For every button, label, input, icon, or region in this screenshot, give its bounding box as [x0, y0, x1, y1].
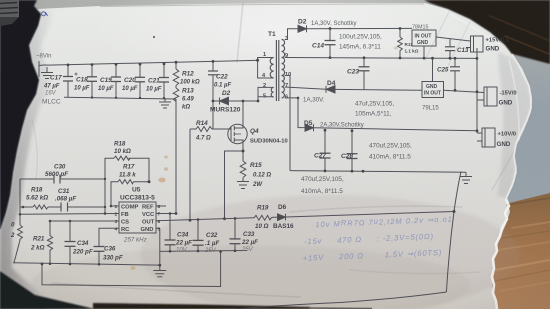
transformer T1	[270, 40, 284, 102]
secondary windings	[282, 40, 285, 58]
capacitor C22	[208, 61, 218, 101]
diode D2	[298, 25, 412, 32]
capacitor C36	[94, 247, 105, 265]
wire FB pin2	[20, 213, 119, 216]
wire GND pin5	[156, 227, 160, 229]
wire VCC pin7	[156, 213, 176, 215]
blue pen mark top-left	[42, 12, 48, 16]
capacitor C30	[51, 175, 64, 184]
diode D4	[326, 86, 422, 93]
junction dots control	[19, 178, 456, 267]
resistor R15	[240, 161, 246, 182]
U5 pin numbers 1-4	[115, 204, 161, 233]
ground (secondary)	[460, 172, 472, 183]
wire R13 to VCC line	[175, 99, 177, 214]
resistor R18 (10k)	[114, 156, 130, 160]
wire OUT pin6 to R19	[156, 218, 254, 221]
diode D2 MURS120	[213, 97, 258, 105]
transistor Q4	[228, 124, 247, 143]
resistor R18 (5.62k)	[33, 205, 48, 209]
wire Q4 source down	[242, 144, 244, 162]
capacitor C14	[325, 29, 336, 58]
dark object top-left (over paper edge)	[0, 0, 41, 230]
node ~8Vin input	[39, 61, 48, 77]
wire REF pin8 stub	[156, 205, 166, 207]
ground (U5)	[153, 271, 166, 277]
resistor R20 (0.2) left edge	[14, 225, 22, 263]
resistor R13	[173, 88, 179, 102]
capacitor C28	[347, 131, 358, 171]
capacitor C31	[61, 203, 68, 212]
dark wedge bottom-left	[0, 271, 95, 309]
capacitor C17	[63, 65, 78, 97]
wire R18-10k loop	[105, 158, 149, 213]
background wood table bottom right	[470, 193, 550, 309]
wire bottom rail (left)	[13, 263, 160, 265]
connector J3 +10V	[477, 128, 495, 147]
wire R17 loop	[111, 182, 149, 206]
capacitor C23	[359, 58, 370, 90]
wire pin2/pin5 to drain node	[258, 87, 274, 101]
capacitor C34 (22uF 10V)	[165, 214, 176, 252]
wire source sense to OUT line	[225, 151, 244, 219]
capacitor C13	[445, 39, 455, 59]
dark wedge top-right	[424, 0, 550, 64]
wire ground drop vertical	[159, 228, 161, 270]
ground (input)	[41, 67, 53, 79]
wire ground rail (right, upper)	[160, 250, 247, 253]
label R12	[180, 71, 231, 111]
capacitor C19	[111, 64, 121, 97]
wire secondary top to D2	[285, 29, 298, 40]
wire C22 down to gate node	[213, 101, 229, 129]
text labels control section	[10, 141, 294, 262]
wire pin6 down to D5	[285, 98, 305, 128]
keyboard corner texture top-left	[0, 0, 19, 26]
wire left node to FB	[19, 207, 21, 225]
regulator U3 79L15	[422, 58, 484, 97]
label R15	[250, 162, 271, 188]
ground (caps rail)	[159, 98, 171, 108]
resistor R21	[47, 221, 52, 264]
core	[275, 40, 277, 101]
label R14	[195, 120, 259, 142]
wire rail E (secondary return)	[290, 171, 466, 173]
op-amp/PWM U5 UCC3813-5 box	[119, 202, 156, 233]
capacitor C25	[450, 58, 460, 90]
primary winding lower (pins 2-5)	[271, 87, 273, 97]
wire bottom-left outline	[42, 252, 221, 287]
text labels secondary side	[298, 19, 517, 196]
capacitor C27	[320, 130, 331, 171]
wire long output line to right	[293, 212, 454, 217]
wire GND bus vertical right	[476, 48, 478, 133]
junction dots primary	[67, 59, 260, 220]
diode D6 BAS16	[273, 214, 293, 221]
connector J1 +15V	[466, 36, 483, 52]
wire R14 to OUT line	[189, 129, 191, 220]
wire input top rail	[48, 60, 258, 65]
capacitor C33	[230, 218, 241, 250]
wire caps bottom rail	[64, 97, 176, 99]
wire pin10 to center-tap return	[285, 76, 290, 171]
wire bottom-right outline (to handwriting box)	[236, 292, 446, 309]
resistor R12	[173, 62, 179, 88]
wire rail C (-15 rail)	[285, 87, 326, 89]
wire right outline (hand-drawn)	[446, 172, 461, 293]
wire COMP pin1	[111, 205, 119, 207]
wire RC pin4	[99, 228, 119, 246]
U5 pin name COMP / REF	[121, 204, 155, 233]
resistor R19	[254, 215, 273, 220]
wood grain streaks	[495, 198, 550, 304]
wire pin1 stub	[258, 58, 274, 61]
capacitor C34 (220pF)	[65, 221, 76, 264]
pin number 1	[262, 36, 291, 101]
resistor R11	[398, 29, 403, 59]
regulator U2 78M15	[412, 30, 470, 58]
ground (R15)	[237, 182, 249, 189]
wire pin4 stub	[258, 60, 274, 78]
resistor R17	[118, 180, 133, 184]
capacitor C20	[135, 64, 145, 98]
wire rail B (mid secondary)	[285, 57, 477, 60]
junction dots secondary	[297, 27, 479, 173]
connector J2 -15V	[477, 87, 497, 106]
dark strip along bottom edge	[93, 303, 310, 309]
primary winding upper (pins 1-4)	[270, 58, 273, 78]
capacitor C32	[193, 220, 204, 252]
diode D5	[305, 124, 477, 131]
wire C30 branch	[20, 178, 105, 180]
capacitor C18	[87, 65, 97, 98]
paper stains	[130, 36, 398, 270]
wire drain into Q4	[242, 101, 244, 125]
wire CS pin3	[50, 220, 119, 222]
torn paper edge highlight	[492, 199, 509, 309]
wire R18/C31 branch	[20, 179, 105, 207]
label C17 value	[43, 75, 162, 93]
capacitor C21	[159, 64, 169, 98]
handwritten notes (blue pen)	[301, 214, 454, 263]
text labels primary side	[36, 31, 291, 188]
resistor R14	[190, 127, 213, 132]
